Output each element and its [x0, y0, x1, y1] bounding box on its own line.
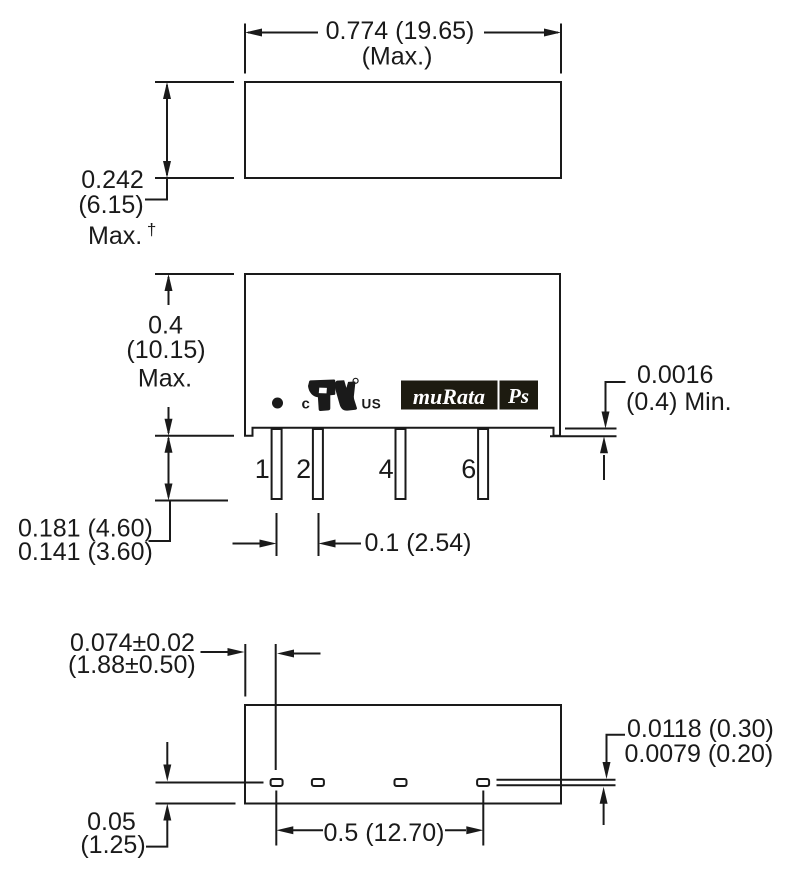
svg-text:(1.88±0.50): (1.88±0.50) [68, 651, 196, 679]
extension line top for 0.4 dim [155, 273, 234, 275]
extension line below pad1 for 0.5 dim [275, 791, 277, 846]
pin thickness line upper [497, 779, 616, 781]
extension line below pad6 for 0.5 dim [482, 791, 484, 846]
svg-text:0.242: 0.242 [81, 166, 144, 194]
leader from (6.15) text [145, 178, 167, 200]
arrowhead pin-length down [165, 484, 173, 501]
leader 0.074 left arrow tail [201, 651, 229, 653]
svg-text:6: 6 [461, 454, 476, 484]
arrowhead 0.0079 up [600, 787, 608, 804]
dimension line 0.5 right segment [445, 829, 466, 831]
front view body outline with standoff feet [245, 274, 560, 436]
svg-text:Max.: Max. [138, 365, 192, 393]
arrowhead 0.074 left-pointing [277, 650, 294, 658]
extension line pin bottom [155, 500, 228, 502]
arrowhead 0.774 left [245, 29, 262, 37]
svg-text:(10.15): (10.15) [126, 336, 205, 364]
0.05 down arrow line [166, 742, 168, 765]
0.074 right arrow tail [294, 653, 321, 655]
arrowhead 0.242 up [163, 82, 171, 99]
pin 2 front [313, 429, 323, 499]
up arrow line below standoff [603, 455, 605, 480]
extension line bottom for 0.242 dim [155, 177, 234, 179]
muRata logo box [401, 381, 538, 410]
svg-text:US: US [362, 397, 382, 412]
extension line left for 0.774 dim [244, 24, 246, 74]
svg-text:0.5 (12.70): 0.5 (12.70) [324, 819, 445, 847]
arrowhead 0.0118 down [603, 762, 611, 779]
arrowhead 0.05 down [163, 765, 171, 782]
dimension line 0.774 left segment [248, 32, 318, 34]
svg-text:muRata: muRata [413, 384, 485, 409]
pad 4 [395, 779, 407, 786]
svg-text:0.0016: 0.0016 [637, 361, 713, 389]
UL recognized component mark [302, 378, 382, 412]
pad level line left [156, 782, 264, 784]
pin 1 front [272, 429, 282, 499]
dimension line 0.5 left segment [293, 829, 323, 831]
arrowhead 0.242 down [163, 161, 171, 178]
svg-text:0.0079 (0.20): 0.0079 (0.20) [625, 740, 774, 768]
svg-text:0.141 (3.60): 0.141 (3.60) [18, 538, 153, 566]
leader 0.0016 with vertical [606, 382, 626, 412]
svg-text:(6.15): (6.15) [78, 191, 143, 219]
arrowhead 0.5 right [466, 826, 483, 834]
leader 0.0118 [607, 735, 626, 762]
svg-text:4: 4 [379, 454, 394, 484]
svg-text:(1.25): (1.25) [80, 831, 145, 859]
dimension line 0.1 right tail [333, 543, 361, 545]
extension line top for 0.242 dim [155, 81, 234, 83]
arrowhead 0.4 up [165, 274, 173, 291]
extension line bottom for 0.4 dim / feet bottom [155, 435, 234, 437]
bottom edge extension left [156, 803, 236, 805]
arrowhead 0.4 down [165, 419, 173, 436]
svg-text:2: 2 [296, 454, 311, 484]
svg-text:(Max.): (Max.) [362, 43, 433, 71]
extension line right for 0.774 dim [560, 24, 562, 74]
dimension line 0.242 vertical [166, 85, 168, 175]
pin thickness line lower [497, 784, 616, 786]
extension line standoff bottom right [550, 435, 617, 437]
bottom view body outline [245, 705, 561, 804]
arrowhead 0.5 left [276, 826, 293, 834]
pin 1 index dot [272, 398, 283, 409]
svg-text:0.0118 (0.30): 0.0118 (0.30) [627, 715, 774, 743]
arrowhead 0.1 right [260, 540, 277, 548]
arrowhead 0.774 right [544, 29, 561, 37]
svg-text:1: 1 [255, 454, 270, 484]
leader from (3.60) text [149, 501, 171, 542]
extension line below pin 1 [276, 513, 278, 556]
arrowhead standoff up [600, 436, 608, 453]
dimension line pin length [168, 438, 170, 497]
pad 1 [271, 779, 283, 786]
pad 2 [312, 779, 324, 786]
extension line below pin 2 [318, 513, 320, 556]
pad 6 [477, 779, 489, 786]
extension line standoff top right [565, 428, 617, 430]
arrowhead 0.1 left [319, 540, 336, 548]
svg-text:c: c [302, 396, 310, 413]
up arrow line 0.0079 [603, 803, 605, 825]
extension line left edge for 0.074 dim [244, 644, 246, 697]
0.05 up arrow line + leader [146, 820, 167, 847]
arrowhead 0.05 up [163, 804, 171, 821]
pin 4 front [396, 429, 406, 499]
dimension line 0.1 left tail [233, 543, 263, 545]
top view body outline [245, 82, 561, 178]
arrowhead pin-length up [165, 436, 173, 453]
dimension line 0.774 right segment [484, 32, 558, 34]
pin 6 front [478, 429, 488, 499]
svg-text:(0.4) Min.: (0.4) Min. [626, 388, 732, 416]
svg-text:Ps: Ps [507, 384, 529, 408]
svg-text:0.774 (19.65): 0.774 (19.65) [326, 17, 475, 45]
arrowhead 0.074 right-pointing [228, 648, 245, 656]
extension line pin1 center for 0.074 dim [275, 644, 277, 770]
dimension line 0.4 bottom segment [168, 407, 170, 433]
arrowhead standoff down [602, 412, 610, 429]
svg-text:0.1 (2.54): 0.1 (2.54) [365, 529, 472, 557]
dimension line 0.4 top segment [168, 277, 170, 305]
